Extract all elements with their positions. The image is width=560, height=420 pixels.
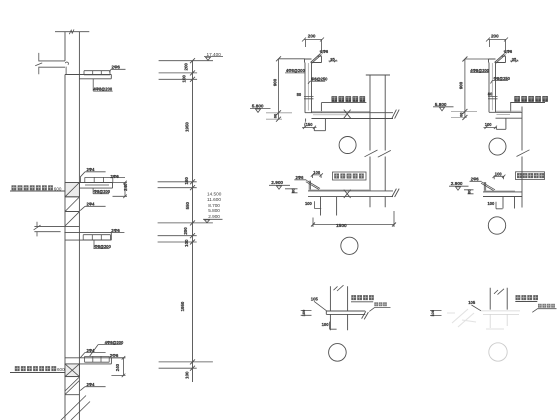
svg-text:2Φ6: 2Φ6 <box>110 353 119 358</box>
svg-text:17.400: 17.400 <box>207 52 222 57</box>
svg-text:4Φ8@200: 4Φ8@200 <box>93 87 112 92</box>
bottom 240 dim <box>111 358 125 376</box>
floor slab break X <box>344 190 351 198</box>
mid sill block <box>65 183 79 197</box>
svg-text:100: 100 <box>184 239 189 247</box>
cap rebar diag fr <box>495 51 507 63</box>
svg-text:80: 80 <box>458 112 463 117</box>
2.900 level mark fr <box>449 186 471 190</box>
100 bracket fr <box>496 202 503 209</box>
svg-text:550: 550 <box>185 201 190 209</box>
label 4phi8 underline top <box>93 79 113 91</box>
svg-text:2Φ6: 2Φ6 <box>471 177 480 182</box>
svg-text:80: 80 <box>468 190 472 194</box>
faint circle br <box>489 343 507 361</box>
svg-text:240: 240 <box>115 363 120 371</box>
step below slab fr <box>496 118 506 129</box>
mid 2phi4 lower underline <box>80 206 105 210</box>
text shen-ru-lou-ban-nei far-right <box>514 96 548 102</box>
svg-text:5.800: 5.800 <box>208 208 220 213</box>
svg-text:80: 80 <box>488 92 493 97</box>
bottom hatch block <box>65 377 79 395</box>
dim vertical line <box>192 61 194 382</box>
svg-text:100: 100 <box>495 172 503 177</box>
svg-text:80: 80 <box>297 92 302 97</box>
4phi8 underline fr <box>470 72 489 74</box>
2.900 level mark <box>269 185 295 189</box>
eave slab <box>326 311 365 314</box>
svg-text:2Φ4: 2Φ4 <box>87 382 96 387</box>
floor slab end ticks <box>392 189 399 197</box>
level symbol 2.900 <box>203 219 223 222</box>
mid sill rebar stirrup band + 2phi6 underline <box>85 177 125 185</box>
svg-text:2Φ6: 2Φ6 <box>296 175 305 180</box>
svg-text:105: 105 <box>468 300 476 305</box>
label 2phi6 top <box>109 69 125 72</box>
slab end ticks bm <box>362 311 369 319</box>
2phi6 drip <box>294 180 320 191</box>
note text liang-chang-wei-chuang-dong-kou-kuan 600 mid <box>12 185 62 191</box>
wall below floor slab <box>321 197 337 216</box>
flange 1 rebar stirrup band <box>84 71 110 75</box>
wall right line <box>78 32 80 420</box>
extension lines <box>158 61 213 369</box>
svg-text:2Φ6: 2Φ6 <box>110 174 119 179</box>
faint watermark streaks <box>447 309 476 327</box>
svg-text:Φ8@250: Φ8@250 <box>311 76 328 81</box>
svg-text:11.600: 11.600 <box>207 197 221 202</box>
svg-text:600: 600 <box>54 186 62 191</box>
wall stub break <box>334 285 344 291</box>
text jian-liang-pei-jin-tu far-right <box>517 173 544 178</box>
note text liang-chang-wei-chuang-dong-kou-kuan 600 bottom <box>15 366 65 372</box>
wall ticks 80 <box>304 97 314 99</box>
svg-text:900: 900 <box>459 81 464 89</box>
wall below bm <box>330 314 347 330</box>
coping rebar hook <box>65 62 68 75</box>
bottom 2phi4 underline <box>80 387 105 391</box>
circle 2 fr <box>488 217 505 234</box>
svg-text:100: 100 <box>305 201 313 206</box>
900 dim line <box>279 59 306 119</box>
svg-text:35: 35 <box>512 56 517 61</box>
svg-text:100: 100 <box>313 170 321 175</box>
svg-text:200: 200 <box>184 63 189 71</box>
svg-text:100: 100 <box>301 309 306 316</box>
bottom sill rebar stirrup band <box>85 356 110 362</box>
lintel phi8 underline <box>94 240 110 249</box>
105 leader br <box>472 305 482 311</box>
slab end ticks <box>392 110 399 119</box>
zifang underline br <box>515 301 537 303</box>
parapet walls fr <box>489 63 496 113</box>
svg-text:2Φ6: 2Φ6 <box>111 228 120 233</box>
svg-text:4Φ8@200: 4Φ8@200 <box>105 340 124 345</box>
wall stub br <box>490 288 507 310</box>
1500 dim <box>313 211 394 227</box>
bottom note underline <box>10 372 65 374</box>
150 dim <box>302 126 316 129</box>
100 dim floor fr <box>493 175 506 180</box>
parapet cap <box>305 56 322 62</box>
svg-text:4Φ8@200: 4Φ8@200 <box>286 68 305 73</box>
wall stub break br <box>494 289 504 295</box>
parapet inner rebar <box>307 63 309 111</box>
200 dim <box>304 40 322 51</box>
svg-text:160: 160 <box>184 177 189 185</box>
flange 1 slab <box>65 75 111 79</box>
mid note underline <box>10 190 65 192</box>
svg-text:100: 100 <box>430 309 435 316</box>
svg-text:2.900: 2.900 <box>208 214 220 219</box>
phi8-250 underline fr <box>491 81 509 84</box>
right wall <box>366 75 390 191</box>
5.800 level mark fr <box>433 107 454 111</box>
text zuo-fa small bm <box>374 302 387 306</box>
parapet walls <box>305 63 312 113</box>
105 leader <box>314 301 327 311</box>
left coping lines <box>39 61 65 67</box>
35 dim fr <box>510 60 519 62</box>
shen-ru underline + leader fr <box>510 103 545 113</box>
wall below floor slab fr <box>503 197 515 209</box>
circle 1 <box>339 137 356 154</box>
2phi6 drip fr <box>470 181 496 192</box>
floor station left slab <box>34 226 65 231</box>
right wall break fr <box>517 150 530 157</box>
jian-ban box fr <box>516 172 545 180</box>
svg-text:105: 105 <box>311 296 319 301</box>
right wall break <box>365 150 391 157</box>
lintel 2phi6 underline <box>110 231 124 233</box>
svg-text:4Φ8@200: 4Φ8@200 <box>470 68 489 73</box>
200 dim fr <box>488 40 506 51</box>
right wall line fr <box>521 107 523 208</box>
faint slab br <box>481 311 520 329</box>
lintel rebar stirrup band <box>83 235 110 240</box>
phi8-250 underline <box>308 81 325 84</box>
note leader <box>369 308 390 312</box>
base hatch <box>61 396 90 420</box>
bottom details small labels <box>301 296 476 327</box>
dim string rotated labels <box>180 63 190 379</box>
svg-text:100: 100 <box>182 75 187 83</box>
svg-text:1950: 1950 <box>180 301 185 311</box>
roof slab <box>305 113 393 119</box>
slab break X <box>344 110 351 119</box>
text zi-fang-pai-shui bm <box>351 295 374 300</box>
roof slab fr <box>489 112 522 118</box>
mid sill: 2phi4 underline <box>80 172 105 183</box>
svg-text:Φ8@200: Φ8@200 <box>94 244 111 249</box>
svg-text:2Φ6: 2Φ6 <box>504 49 513 54</box>
svg-text:5.800: 5.800 <box>252 103 264 108</box>
svg-text:100: 100 <box>185 371 190 379</box>
floor slab left break <box>34 222 41 237</box>
svg-text:1500: 1500 <box>336 223 347 229</box>
svg-text:(150: (150 <box>304 122 313 127</box>
floor slab <box>308 191 393 197</box>
text zi-fang-pai-shui br <box>516 295 539 300</box>
svg-text:2Φ6: 2Φ6 <box>112 65 121 70</box>
level marks middle string <box>203 52 223 223</box>
900 dim line fr <box>465 59 489 118</box>
right wall below floor <box>370 197 385 208</box>
svg-text:14.500: 14.500 <box>207 191 222 196</box>
svg-text:8.700: 8.700 <box>208 203 220 208</box>
100 dim floor <box>311 173 323 178</box>
left coping end break <box>35 53 42 74</box>
far-right detail labels <box>435 33 517 206</box>
svg-text:Φ8@250: Φ8@250 <box>494 76 511 81</box>
35 dim <box>329 60 338 62</box>
bottom sill 2phi4 underline <box>80 353 105 358</box>
top-middle detail labels <box>252 33 347 228</box>
wall cap top <box>55 31 89 33</box>
svg-text:Φ8@200: Φ8@200 <box>94 189 111 194</box>
step below slab <box>306 119 326 131</box>
wall left line <box>64 32 66 420</box>
note leader br <box>532 309 556 313</box>
80 dim floor <box>292 189 298 193</box>
100 dim bm <box>301 311 312 316</box>
svg-text:80: 80 <box>272 113 277 118</box>
circle bm <box>329 344 347 362</box>
svg-text:2Φ6: 2Φ6 <box>320 49 329 54</box>
svg-text:2Φ4: 2Φ4 <box>87 167 96 172</box>
bottom sill slab <box>65 358 111 364</box>
bottom 2phi6 underline <box>109 357 125 359</box>
mid sill phi8 underline <box>93 188 109 194</box>
100 dim fr <box>484 126 498 129</box>
svg-text:240: 240 <box>123 183 128 191</box>
wall stub <box>330 286 347 311</box>
svg-text:100: 100 <box>485 122 493 127</box>
svg-text:200: 200 <box>183 227 188 235</box>
wall ticks 80 fr <box>488 97 498 99</box>
bottom sill block <box>65 364 79 377</box>
svg-text:35: 35 <box>330 56 335 61</box>
80 dim floor fr <box>468 190 474 194</box>
zifang underline <box>351 301 373 303</box>
lintel slab <box>64 233 111 241</box>
dim ticks <box>190 58 195 371</box>
svg-text:200: 200 <box>308 33 316 38</box>
svg-text:900: 900 <box>272 78 277 86</box>
svg-text:200: 200 <box>491 33 499 38</box>
mid hatch block <box>65 197 79 227</box>
parapet cap fr <box>489 56 506 62</box>
svg-text:2.900: 2.900 <box>451 181 463 186</box>
svg-text:5.800: 5.800 <box>435 102 447 107</box>
bottom sill phi8 label underline <box>90 345 123 357</box>
circle 1 fr <box>489 138 506 155</box>
4phi8 underline <box>285 72 305 74</box>
svg-text:1950: 1950 <box>185 122 190 132</box>
floor slab fr <box>483 192 522 197</box>
svg-text:600: 600 <box>57 367 65 372</box>
text zuo-fa small br <box>538 304 555 308</box>
parapet inner rebar fr <box>491 63 493 110</box>
5.800 level mark <box>250 108 271 112</box>
shen-ru underline + leader <box>321 103 366 113</box>
circle 2 <box>341 237 358 254</box>
svg-text:80: 80 <box>292 189 296 193</box>
svg-text:2Φ4: 2Φ4 <box>87 348 96 353</box>
100 bracket bm <box>330 322 337 330</box>
text shen-ru-lou-ban-nei middle <box>332 96 366 102</box>
mid 240 dim <box>113 183 128 197</box>
svg-text:2Φ4: 2Φ4 <box>87 202 96 207</box>
svg-text:100: 100 <box>322 322 330 327</box>
wall top break tick <box>69 29 74 34</box>
svg-text:2.900: 2.900 <box>271 180 283 185</box>
100 dim br <box>430 311 442 316</box>
100 bracket <box>315 201 322 208</box>
mid sill slab <box>65 183 113 189</box>
svg-text:100: 100 <box>488 201 496 206</box>
text jian-liang-pei-jin-tu middle (boxed) <box>333 172 367 180</box>
cap rebar diag <box>311 51 323 63</box>
